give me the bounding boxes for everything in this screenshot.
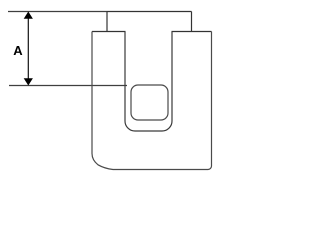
body right stem xyxy=(191,12,193,32)
body top lid edge xyxy=(107,11,192,13)
extension line bottom xyxy=(9,85,127,87)
body left shoulder edge xyxy=(92,31,126,33)
extension line top xyxy=(8,11,107,13)
svg-text:A: A xyxy=(13,43,23,58)
body right shoulder edge xyxy=(172,31,212,33)
dimension line A xyxy=(27,13,29,84)
clamp window rounded square xyxy=(131,85,168,120)
body outer outline xyxy=(92,32,212,170)
body inner slot outline xyxy=(125,32,172,132)
dimension arrow up xyxy=(24,12,33,19)
dimension arrow down xyxy=(24,78,33,85)
body left stem xyxy=(106,12,108,32)
